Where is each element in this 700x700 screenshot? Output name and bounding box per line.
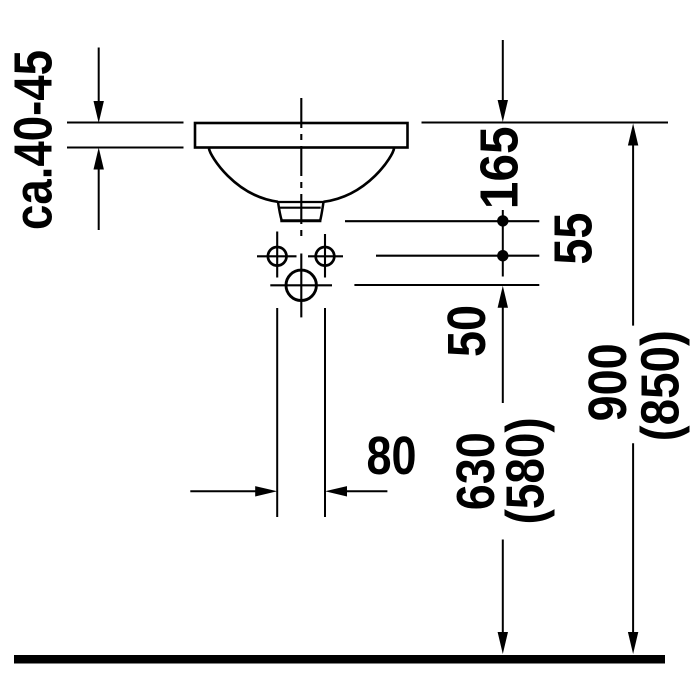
chain dot at drain level xyxy=(497,215,508,226)
top rim reference line right xyxy=(422,121,669,123)
ca.40-45 upper arrow tail xyxy=(98,48,100,103)
big circle vertical crosshair xyxy=(300,254,302,318)
svg-text:55: 55 xyxy=(544,213,604,265)
left circle horizontal crosshair xyxy=(257,255,297,257)
washbasin rim (side view) xyxy=(195,123,408,148)
drain bottom line xyxy=(280,219,321,222)
ca.40-45 extension line top xyxy=(67,122,184,124)
drain outlet flange top line xyxy=(278,201,324,203)
arrowhead 900 down xyxy=(628,632,638,654)
right circle vertical crosshair xyxy=(324,234,326,278)
arrowhead 630 down xyxy=(498,632,508,654)
arrowhead ca.40-45 down xyxy=(94,101,104,123)
centerline (dash-dot vertical axis) xyxy=(300,98,302,236)
svg-text:900: 900 xyxy=(578,343,638,421)
drain bottom reference line right xyxy=(345,220,539,222)
spout hole big circle xyxy=(286,270,316,300)
ca.40-45 lower arrow tail xyxy=(98,169,100,230)
big circle horizontal crosshair xyxy=(270,284,332,286)
right circle horizontal crosshair xyxy=(308,255,343,257)
dim 900 upper line xyxy=(632,145,634,326)
arrowhead 165 down xyxy=(498,100,508,122)
dim 80 right arrow line xyxy=(346,490,387,492)
svg-text:(580): (580) xyxy=(496,417,556,524)
faucet hole left circle xyxy=(268,247,287,266)
drain left side xyxy=(278,202,282,221)
left drain pipe line xyxy=(276,308,278,517)
ca.40-45 extension line bottom xyxy=(67,147,184,149)
floor line xyxy=(14,655,665,664)
svg-text:165: 165 xyxy=(470,126,530,209)
basin bowl right curve xyxy=(324,149,395,202)
basin bowl left curve xyxy=(209,149,278,202)
arrowhead 900 up xyxy=(628,124,638,146)
svg-text:ca.40-45: ca.40-45 xyxy=(3,50,63,230)
dim 50/630 up-arrow tail xyxy=(502,307,504,403)
svg-text:80: 80 xyxy=(367,426,417,486)
dim 80 left arrow line xyxy=(190,490,256,492)
big hole reference line right xyxy=(354,284,539,286)
drain outlet flange second line xyxy=(280,207,321,209)
svg-text:50: 50 xyxy=(437,305,497,357)
arrowhead 50 up xyxy=(498,286,508,308)
dim 165 top arrow tail xyxy=(502,40,504,101)
small holes reference line right xyxy=(376,255,539,257)
right drain pipe line xyxy=(324,308,326,517)
arrowhead 80 left xyxy=(325,486,347,496)
faucet hole right circle xyxy=(316,247,335,266)
dim 900 lower line xyxy=(632,443,634,633)
arrowhead 80 right xyxy=(255,486,277,496)
arrowhead ca.40-45 up xyxy=(94,148,104,170)
dim line through dots xyxy=(502,210,504,277)
dim 630 lower line xyxy=(502,540,504,634)
left circle vertical crosshair xyxy=(276,232,278,278)
svg-text:(850): (850) xyxy=(631,330,691,441)
chain dot at small holes level xyxy=(497,250,508,261)
drain right side xyxy=(320,202,323,221)
